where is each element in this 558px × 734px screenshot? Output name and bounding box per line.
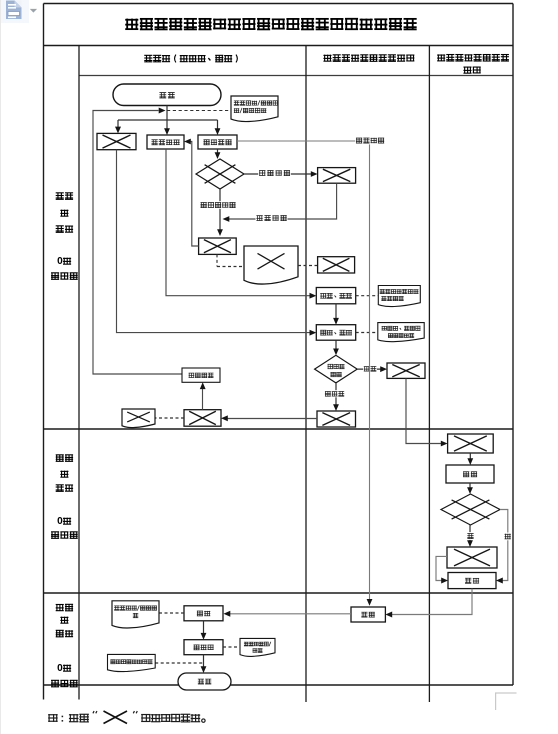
table section border 1 (44, 428, 514, 430)
wire 是 down to X-box6 (467, 525, 475, 547)
wire X-boxB up to 材料补正 (200, 382, 206, 409)
column header 实体专业大厅窗口人员 (323, 55, 414, 62)
wire dashed X-document to X-box3b (298, 265, 318, 267)
wire 决定 to 打证 (385, 589, 472, 618)
wire 不通过 down (324, 383, 345, 411)
document 窗口咨询/电话咨询/网上咨询 (231, 96, 278, 122)
svg-text:0: 0 (57, 516, 63, 527)
wire dashed to consultation doc (167, 110, 231, 112)
wire X-box1 to 接件、受理 (117, 150, 317, 336)
document 窗口评价器/评价 (240, 638, 275, 656)
dropdown triangle (30, 9, 37, 13)
decision 完整性审查 (315, 355, 358, 383)
table right border (512, 4, 514, 686)
X-box no-step 5 (448, 434, 494, 453)
document 窗口显示屏显示叫号信息 (378, 286, 420, 307)
process 接件、受理 (316, 325, 355, 341)
table title row bottom border (44, 45, 514, 47)
X-document A (no-step doc) (122, 409, 155, 428)
X-box no-step 3a (318, 168, 356, 184)
table bottom border (44, 684, 514, 686)
wire 打证 to 送达 (224, 611, 352, 617)
document with X (no-step doc) (244, 246, 298, 284)
wire dashed online-eval doc to flow (155, 662, 203, 664)
X-box no-step B (184, 410, 221, 427)
process 打证 (351, 607, 385, 622)
table header row bottom border (79, 75, 513, 77)
svg-text:0: 0 (57, 256, 63, 267)
X-box no-step 4 (317, 411, 356, 427)
end 结束 stadium (178, 673, 231, 690)
X-box no-step 6 (447, 547, 497, 568)
process 材料补正 (182, 368, 220, 382)
X-box no-step 3b (318, 257, 355, 273)
svg-text:0: 0 (57, 663, 63, 674)
wire dashed 接件 to device doc (356, 332, 378, 334)
wire dashed pickup doc to 送达 (159, 612, 184, 614)
X-box no-step 2 (199, 238, 237, 254)
wire X-box4 to X-boxB (221, 415, 317, 421)
row label 审查与决定 0个工作日 (51, 455, 78, 539)
table left border (43, 4, 45, 700)
note 注：图中 X 表示无此环节 (48, 711, 205, 724)
column header 实体专业大厅窗口 人员 (2 lines) (437, 54, 509, 73)
wire X-box6 loop to 决定 (436, 556, 448, 583)
process 取号、叫号 (316, 288, 355, 304)
page left edge (0, 0, 2, 734)
X-box no-step 1 (97, 133, 136, 149)
wire distribution line (118, 119, 218, 121)
wire dashed X-box2 to X-document (217, 254, 244, 266)
wire 通过预审 return (223, 183, 337, 222)
wire 需要预审 to X-box3a (244, 169, 318, 177)
wire X-boxC to X-box5 (cross section) (406, 378, 448, 446)
document 高拍仪、读卡器等辅助设备 (378, 323, 424, 342)
table column separator 2 (305, 46, 307, 703)
decision diamond pre-review (X) (196, 159, 244, 189)
wire 窗口办理 to 取号、叫号 (166, 149, 316, 299)
process 复审 (446, 465, 494, 483)
table column separator 3 (428, 46, 430, 703)
wire 送达 to 好差评 (201, 621, 207, 640)
table outer top border (44, 3, 514, 5)
wire 取号 to 接件 (333, 304, 339, 325)
wire 否 path to 决定 (496, 510, 512, 584)
wire 通过 to X-boxC (357, 365, 387, 372)
wire dashed 取号 to display doc (356, 295, 379, 297)
wire branch to 网上填报 (215, 120, 221, 135)
wire X-box5 to 复审 (467, 453, 473, 465)
page corner mark (495, 693, 517, 711)
wire dashed X-boxB to X-docA (155, 417, 184, 419)
decision diamond review (X) (441, 494, 500, 525)
process 网上填报 (198, 135, 237, 149)
process 送达 (184, 606, 223, 621)
table label column separator (78, 46, 80, 700)
table title 商品住宅专项维修资金楼盘信息变更办理流程 (125, 19, 416, 30)
document 网上直接办件评价 (108, 654, 156, 671)
start 申请 stadium (113, 84, 221, 106)
floating doc icon (1, 0, 29, 23)
process 窗口办理 (147, 135, 184, 149)
column header 申请人（自然人、法人） (144, 55, 237, 63)
X-box no-step C (387, 363, 425, 378)
wire 申请 down to 窗口办理 (164, 106, 170, 136)
wire 好差评 to 结束 (201, 655, 207, 673)
wire 网上填报 to decision (215, 149, 221, 159)
process 好差评 (184, 640, 223, 655)
wire 信息同步 sync line (237, 137, 385, 606)
wire 不需要预审 down (200, 189, 236, 236)
table section border 2 (44, 592, 514, 594)
wire X-box2 loop to 窗口办理 (184, 139, 199, 246)
wire 接件 to completeness decision (333, 340, 339, 355)
wire branch to X-box1 (115, 120, 121, 133)
row label 领证与送达 0个工作日 (51, 604, 78, 687)
wire 复审 to decision (467, 483, 473, 494)
document 窗口领取/网站查看 (112, 601, 159, 628)
process 决定 (448, 573, 496, 589)
row label 申请与受理 0个工作日 (51, 193, 78, 280)
wire 材料补正 return loop (93, 108, 182, 375)
wire dashed 好差评 to evaluator doc (223, 646, 240, 648)
